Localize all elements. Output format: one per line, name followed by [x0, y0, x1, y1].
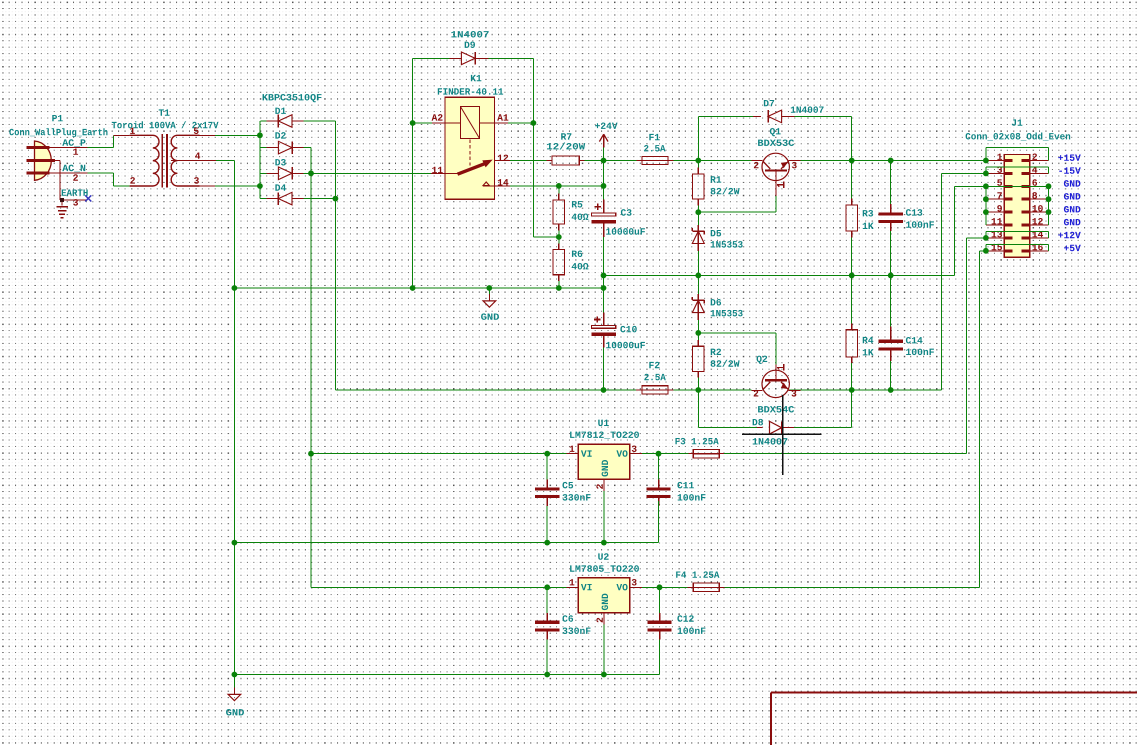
junction U1 rail left — [232, 540, 238, 546]
U2 text VI — [581, 584, 592, 590]
wire mid rail jog — [603, 275, 605, 288]
wire C3 top — [603, 161, 605, 186]
wire AC_P to T1 — [88, 146, 114, 148]
wire C10 bottom — [603, 336, 605, 348]
junction C14 top — [888, 273, 894, 279]
label R3 — [863, 210, 873, 217]
junction R6 bottom — [556, 285, 562, 291]
junction C11 top — [656, 451, 662, 457]
wire bridge plus down — [310, 173, 312, 587]
sheet border — [771, 692, 1137, 694]
label U2 — [598, 553, 608, 560]
U1 text VO — [616, 450, 627, 457]
cursor crosshair — [782, 395, 784, 475]
label 1N5353 D6 — [711, 310, 743, 317]
junction C3 bottom jog — [601, 285, 607, 291]
junction C6 bottom — [544, 672, 550, 678]
label 100nF C13 — [906, 221, 934, 228]
Q2 pin number 1 — [777, 366, 784, 368]
power symbol +24V — [603, 148, 605, 161]
capacitor C13 — [879, 212, 903, 215]
wire pin14 rail — [510, 185, 604, 187]
K1 coil dashed link — [469, 140, 471, 167]
wire J1 pin15 to F4 — [979, 250, 986, 252]
pin number 1 of P1 — [73, 148, 78, 154]
wire U1 pin2 down — [603, 491, 605, 543]
junction R1 bottom — [695, 209, 701, 215]
resistor R3 — [851, 161, 853, 199]
label D5 — [711, 230, 721, 236]
U2 text VO — [616, 584, 627, 591]
U1 pin 3 lead — [630, 453, 642, 455]
junction C12 top — [657, 584, 663, 590]
zener D6 — [697, 275, 699, 294]
label 1N5353 D5 — [711, 241, 743, 248]
transistor Q2 BDX54C — [762, 370, 789, 397]
label FINDER-40.11 — [438, 88, 503, 95]
label D1 — [275, 108, 285, 114]
wire mid rail right — [604, 274, 955, 276]
T1 pin 4 lead — [171, 160, 216, 162]
label 330nF C6 — [563, 627, 591, 634]
junction J1 pin1 — [983, 158, 989, 164]
label LM7805_TO220 — [570, 565, 639, 572]
label 1N4007 D8 — [753, 438, 788, 445]
diode D7 — [753, 115, 761, 117]
label C14 — [906, 337, 923, 344]
wire minus rail up to J1 pin3 — [941, 173, 943, 390]
junction D3 cathode — [308, 170, 314, 176]
junction J1 pin5 — [983, 183, 989, 189]
wire D3 junction to relay pin 11 — [311, 172, 431, 174]
label R7 — [561, 133, 571, 139]
diode D2 — [260, 147, 266, 149]
wire A1 junction — [508, 122, 533, 124]
label J1 — [1012, 119, 1023, 125]
wire Q2 base link — [698, 332, 776, 334]
U1 pin 2 lead — [603, 479, 605, 490]
Q1 pin number 2 — [754, 162, 759, 168]
fuse F4 — [688, 586, 694, 588]
junction C3 bottom — [601, 273, 607, 279]
wire bridge left vertical — [259, 121, 261, 199]
label C6 — [562, 615, 573, 622]
wire T1 pin5 to bridge — [215, 134, 260, 136]
label 330nF C5 — [563, 494, 591, 501]
regulator U2 body — [578, 578, 630, 613]
label LM7812_TO220 — [570, 431, 639, 438]
wire U2 pin2 down — [603, 624, 605, 674]
wire bridge minus down — [334, 199, 336, 390]
label 100nF C14 — [906, 349, 934, 356]
fuse F3 — [688, 453, 694, 455]
label BDX53C Q1 — [758, 139, 794, 146]
wire F1 to Q1 base node — [674, 160, 752, 162]
Q2 pin number 3 — [792, 390, 797, 397]
label KBPC3510QF — [263, 94, 322, 102]
wire loop pins 15-16 — [985, 244, 987, 251]
junction J1 pin9 — [983, 209, 989, 215]
junction J1 pin13 — [983, 235, 989, 241]
T1 core — [161, 134, 163, 187]
T1 pin number 3 — [194, 177, 199, 184]
wire Q1 emitter down — [775, 196, 777, 212]
capacitor C10 — [592, 325, 616, 328]
junction bridge left top — [257, 132, 263, 138]
P1 earth square — [60, 198, 64, 202]
label U1 — [598, 420, 609, 426]
label Conn_WallPlug_Earth — [9, 128, 107, 137]
label 2.5A F2 — [644, 374, 665, 381]
wire U2 input — [311, 586, 566, 588]
Q1 pin number 1 — [777, 184, 784, 186]
P1 prong AC_P — [27, 146, 50, 149]
junction J1 pin10 — [1046, 209, 1052, 215]
T1 pin number 5 — [194, 128, 199, 134]
wire D7 right — [795, 115, 852, 117]
label D7 — [764, 100, 774, 106]
junction +24V node — [601, 158, 607, 164]
label 100nF C11 — [678, 494, 706, 501]
wire R1 to D5 — [697, 212, 699, 225]
junction mid rail left end — [232, 285, 238, 291]
wire D1-D4 cathode vertical — [334, 121, 336, 199]
wire U1 out — [642, 453, 688, 455]
label C3 — [621, 209, 632, 216]
junction C10 bottom — [601, 387, 607, 393]
T1 pin 3 lead — [200, 185, 216, 187]
label C13 — [906, 209, 922, 216]
label 1K R4 — [863, 349, 874, 355]
label R2 — [711, 349, 721, 355]
K1 pin 11 lead — [431, 172, 457, 174]
capacitor C12 — [659, 587, 661, 613]
label Q1 — [770, 128, 781, 136]
fuse F2 — [636, 389, 642, 391]
label 1N4007 D7 — [791, 106, 824, 113]
K1 switch arm — [458, 163, 487, 174]
label R5 — [572, 201, 582, 207]
label C11 — [677, 482, 694, 489]
junction R4 top — [849, 273, 855, 279]
junction R5 top — [556, 183, 562, 189]
fuse F1 — [637, 160, 643, 162]
wire bottom rail left — [335, 389, 635, 391]
label C12 — [677, 615, 693, 622]
label Conn_02x08_Odd_Even — [966, 132, 1071, 140]
K1 coil — [460, 107, 479, 139]
T1 pin number 2 — [130, 177, 135, 183]
Q2 pin number 2 — [754, 390, 759, 396]
no-connect X on EARTH pin — [85, 195, 91, 201]
pin name EARTH — [62, 189, 88, 195]
wire F2 to Q2 — [674, 389, 752, 391]
wire J1 GND left vertical — [985, 186, 987, 225]
K1 pin 14 lead — [483, 185, 510, 187]
label 100nF C12 — [678, 627, 706, 634]
resistor R4 — [851, 275, 853, 323]
junction A2 — [410, 120, 416, 126]
label D8 — [753, 419, 763, 426]
label C10 — [620, 326, 636, 333]
K1 pin 12 lead — [495, 160, 510, 162]
label R1 — [711, 176, 721, 182]
wire D7 left — [698, 115, 753, 117]
wire D9 right — [489, 57, 534, 59]
wire T1 pin4 down — [216, 160, 234, 162]
junction C6 top — [544, 584, 550, 590]
junction J1 pin8 — [1046, 196, 1052, 202]
wire J1 pin13 to F3 — [967, 237, 986, 239]
zener D5 — [697, 225, 699, 231]
junction U1 input branch — [308, 451, 314, 457]
K1 pin A2 lead — [432, 122, 460, 124]
K1 pin 14 contact — [483, 182, 489, 186]
K1 pin number 14 — [498, 179, 509, 185]
U1 text GND — [602, 460, 609, 477]
label R6 — [572, 250, 582, 257]
wire D2-D3 cathode vertical — [310, 148, 312, 174]
wire U2 out — [642, 586, 688, 588]
U1 pin number 1 — [570, 446, 575, 452]
diode D3 — [260, 172, 266, 174]
label T1 — [159, 109, 170, 115]
U1 pin 1 lead — [566, 453, 578, 455]
wire AC_N to T1 — [88, 172, 114, 174]
J1 pin numbers — [997, 154, 1002, 160]
junction R5 bottom — [556, 234, 562, 240]
T1 pin 5 lead — [200, 134, 216, 136]
wire mid rail up to J1 pin5 — [953, 186, 955, 275]
transformer T1 primary winding — [130, 135, 159, 186]
transistor Q1 BDX53C — [762, 153, 789, 180]
U2 pin number 3 — [632, 579, 637, 586]
label Toroid 100VA / 2x17V — [112, 121, 219, 128]
label P1 — [52, 115, 62, 121]
J1 pins — [986, 160, 1004, 162]
label 82/2W R1 — [711, 187, 740, 194]
wire C10 top — [603, 288, 605, 313]
pin number 2 of P1 — [73, 174, 78, 180]
junction Q2 base node — [695, 330, 701, 336]
label K1 — [471, 75, 481, 81]
wire D8 left — [697, 390, 699, 428]
label F2 — [649, 362, 659, 368]
wire U2 gnd rail — [234, 674, 659, 676]
label BDX54C Q2 — [758, 406, 794, 413]
junction D4 cathode — [333, 196, 339, 202]
wire U1 gnd rail — [234, 542, 658, 544]
capacitor C3 — [592, 213, 616, 216]
Q1 pin number 3 — [792, 162, 797, 169]
U1 pin number 3 — [632, 445, 637, 452]
junction U1 pin2 bottom — [601, 540, 607, 546]
wire U1 input — [311, 453, 566, 455]
wire C11 bottom corner — [658, 501, 660, 542]
K1 pin number 12 — [498, 155, 508, 161]
label 10000uF C3 — [606, 228, 645, 235]
wire D5 to mid rail — [697, 251, 699, 275]
capacitor C5 — [546, 454, 548, 480]
U2 text GND — [602, 594, 609, 611]
U1 text VI — [581, 450, 592, 456]
P1 pin 3 EARTH lead — [62, 199, 88, 201]
junction C5 top — [544, 451, 550, 457]
power symbol GND bottom — [233, 675, 235, 688]
T1 pin 1 lead — [114, 134, 130, 136]
label 1K R3 — [863, 223, 874, 229]
K1 pin A1 lead — [480, 122, 508, 124]
T1 pin number 4 — [195, 152, 200, 158]
wire GND row5 cross — [954, 185, 1048, 187]
wire left vertical — [233, 288, 235, 675]
wire pin12 to R7 — [510, 160, 547, 162]
connector J1 body — [1004, 155, 1029, 258]
label 82/2W R2 — [711, 360, 740, 367]
capacitor C11 — [658, 454, 660, 480]
wire A2 junction — [413, 122, 433, 124]
wire D9 left — [413, 57, 450, 59]
resistor R5 — [558, 186, 560, 194]
power symbol GND mid — [488, 288, 490, 294]
junction relay vertical on mid rail — [410, 285, 416, 291]
wire loop pins 1-2 — [985, 148, 987, 161]
label GND bottom — [226, 709, 244, 716]
transformer T1 secondary winding — [171, 135, 199, 186]
label F1 — [649, 134, 659, 140]
junction GND stub — [486, 285, 492, 291]
label 12/20W — [547, 142, 585, 149]
junction J1 pin6 — [1046, 183, 1052, 189]
T1 pin number 1 — [130, 128, 135, 134]
junction Q1 base node — [695, 158, 701, 164]
label F3 1.25A — [675, 438, 718, 445]
label GND mid — [481, 313, 499, 320]
junction D6 top — [695, 273, 701, 279]
junction U2 pin2 bottom — [601, 672, 607, 678]
label Q2 — [757, 356, 768, 364]
wire D8 right — [794, 427, 852, 429]
wire loop pins 13-14 — [985, 231, 987, 238]
K1 pin number A2 — [432, 114, 443, 120]
diode D4 — [260, 198, 267, 200]
junction C14 bottom — [888, 387, 894, 393]
junction U2 rail left — [232, 672, 238, 678]
junction R2 bottom — [695, 387, 701, 393]
label 2.5A F1 — [644, 145, 665, 152]
pin name AC_N — [62, 165, 85, 172]
regulator U1 body — [578, 444, 630, 479]
U2 pin 2 lead — [603, 613, 605, 624]
P1 pin 1 AC_P lead — [50, 146, 88, 148]
wire T1 pin3 to bridge — [215, 185, 260, 187]
P1 prong middle — [27, 159, 55, 162]
label D6 — [711, 299, 721, 306]
U2 pin 1 lead — [566, 586, 578, 588]
wire +24V node to F1 — [604, 160, 637, 162]
label 1N4007 D9 — [451, 31, 488, 38]
wire relay right down to R5R6 — [532, 123, 534, 237]
junction bridge left bottom — [257, 183, 263, 189]
P1 prong AC_N — [27, 171, 50, 174]
wire loop pins 3-4 — [985, 167, 987, 173]
capacitor C14 — [879, 340, 903, 343]
resistor R7 — [546, 160, 552, 162]
wire Q1 emitter rail — [789, 160, 986, 162]
junction A1 — [531, 120, 537, 126]
label F4 1.25A — [676, 571, 719, 578]
label +24V — [595, 122, 618, 128]
net labels +15V -15V GND +12V +5V — [1058, 154, 1081, 160]
junction C5 bottom — [544, 540, 550, 546]
K1 pin number 11 — [432, 167, 442, 173]
wire C3 bottom — [603, 223, 605, 237]
label 40 ohm R6 — [572, 263, 589, 270]
K1 pin number A1 — [497, 114, 508, 120]
wire J1 GND right vertical — [1048, 186, 1050, 225]
U2 pin number 2 — [596, 618, 602, 623]
junction J1 pin15 — [983, 248, 989, 254]
capacitor C13 wires — [890, 161, 892, 205]
wire R7 to +24V node — [584, 160, 603, 162]
junction J1 pin7 — [983, 196, 989, 202]
pin number 3 of P1 — [73, 199, 78, 206]
label D4 — [275, 184, 286, 190]
label R4 — [863, 337, 874, 343]
wire Q2 to right — [789, 389, 941, 391]
label D2 — [275, 132, 285, 138]
resistor R6 — [558, 237, 560, 243]
earth ground symbol — [61, 202, 63, 206]
diode D8 — [757, 427, 763, 429]
diode D1 — [260, 120, 266, 122]
junction C13 top — [888, 158, 894, 164]
P1 pin 2 AC_N lead — [50, 172, 88, 174]
wire mid rail left — [234, 287, 603, 289]
resistor R2 — [697, 333, 699, 340]
label 40 ohm R5 — [572, 213, 589, 220]
U2 pin 3 lead — [630, 586, 642, 588]
pin name AC_P — [62, 139, 85, 146]
capacitor C6 — [546, 587, 548, 613]
label C5 — [562, 482, 573, 489]
junction D7 cathode rail — [849, 158, 855, 164]
junction J1 pin3 — [983, 171, 989, 177]
resistor R1 — [697, 161, 699, 168]
junction D8 right — [849, 387, 855, 393]
label D3 — [275, 159, 285, 166]
connector P1 Conn_WallPlug_Earth body — [35, 141, 52, 180]
diode D9 — [450, 57, 462, 59]
U2 pin number 1 — [570, 579, 575, 585]
wire D6 to R2 — [697, 320, 699, 333]
relay K1 body — [445, 97, 495, 199]
capacitor C14 wires — [890, 275, 892, 326]
U1 pin number 2 — [596, 484, 602, 489]
label D9 — [465, 41, 475, 48]
label 10000uF C10 — [606, 342, 645, 349]
junction pin14 at C3 column — [601, 183, 607, 189]
wire relay left down — [412, 123, 414, 288]
P1 earth link — [55, 160, 60, 162]
